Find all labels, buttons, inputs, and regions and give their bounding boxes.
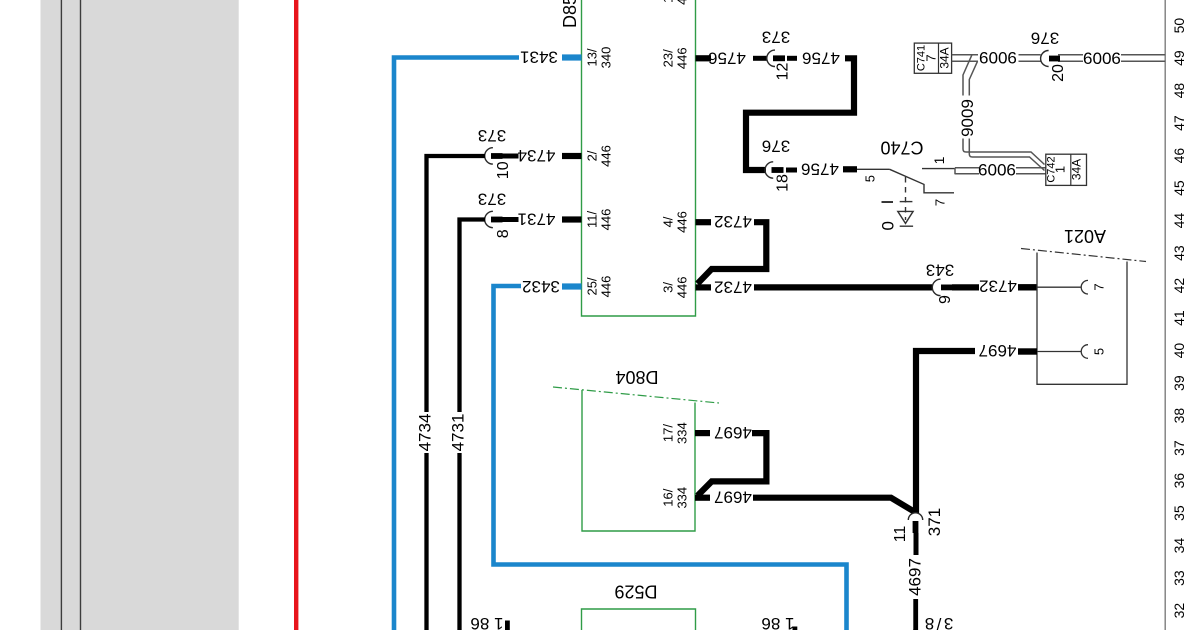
pin stub left bottom (505, 621, 510, 630)
svg-text:35: 35 (1171, 505, 1187, 521)
A021 pin 5 number (1092, 348, 1107, 355)
svg-text:46: 46 (1171, 148, 1187, 164)
twisted pair 6006 upper (line A) (952, 54, 1165, 56)
wire 4697 run from A021 (916, 351, 975, 513)
switch pin 1 number (931, 156, 947, 164)
svg-text:373: 373 (478, 190, 506, 209)
svg-text:36: 36 (1171, 473, 1187, 489)
svg-text:9009: 9009 (979, 48, 1017, 67)
connector pin number 18 (775, 174, 792, 192)
svg-text:4731: 4731 (518, 210, 556, 229)
wire 3432 (blue) (494, 286, 847, 630)
svg-text:34A: 34A (1070, 159, 1084, 180)
wire 4731 run (460, 220, 486, 413)
pin 23/446 label (661, 47, 690, 69)
switch blade (890, 169, 954, 193)
svg-text:376: 376 (1031, 29, 1059, 48)
connector 343 stub (pin 9 side) (941, 285, 953, 291)
svg-text:7: 7 (933, 199, 948, 206)
pin 16/334 label (661, 487, 690, 509)
svg-text:4697: 4697 (906, 558, 925, 596)
svg-text:343: 343 (926, 261, 954, 280)
connector pin number 12 (775, 63, 792, 81)
band rule 1 (60, 0, 62, 630)
connector 373 arc (pin 12) (767, 50, 775, 66)
component A021 box (1037, 253, 1127, 385)
svg-text:0: 0 (879, 221, 898, 230)
wire 4732 main run (754, 284, 932, 290)
svg-text:4697: 4697 (714, 488, 752, 507)
wire segment to connector 373 (753, 56, 767, 61)
A021 pin 5 stub (1018, 348, 1037, 354)
wire 4734 lower run (424, 453, 428, 630)
svg-text:1 86: 1 86 (470, 614, 503, 630)
pin stub 23/446 (696, 55, 712, 61)
pin 11/446 label (585, 209, 614, 231)
A021 pin 5 terminal arc (1081, 345, 1088, 359)
pin stub right bottom (793, 627, 798, 630)
svg-text:9009: 9009 (978, 160, 1016, 179)
wire segment after connector 343 (952, 284, 979, 290)
switch pin 5 number (863, 175, 878, 182)
svg-text:11/446: 11/446 (585, 209, 614, 231)
connector pin number 11 (892, 526, 909, 543)
svg-text:45: 45 (1171, 180, 1187, 196)
svg-text:11: 11 (892, 526, 909, 543)
component D804 box (green) (582, 390, 695, 531)
svg-text:1: 1 (931, 156, 947, 164)
svg-text:D529: D529 (614, 582, 657, 602)
switch position I tick (900, 201, 913, 203)
svg-text:D804: D804 (615, 367, 658, 387)
svg-text:39: 39 (1171, 375, 1187, 391)
pin stub 4/446 (696, 219, 712, 225)
switch pin 5 contact line (857, 168, 890, 170)
A021 pin 7 number (1092, 283, 1107, 290)
wire 4697 lower run (914, 533, 919, 555)
wire segment to label (4731) (502, 217, 519, 222)
svg-text:23/446: 23/446 (661, 47, 690, 69)
wire 4697 bridge run (pin17 to pin16) (698, 433, 767, 496)
connector 373 stub (pin 12 side) (773, 55, 785, 61)
svg-text:50: 50 (1171, 18, 1187, 34)
svg-text:1: 1 (1053, 166, 1068, 173)
connector 371 stub (pin 11 side) (913, 521, 919, 533)
connector C741 box (914, 43, 951, 73)
component A021 boundary dash-dot (1021, 249, 1146, 262)
component D804 boundary dash-dot (green) (553, 387, 719, 403)
connector C742 box (1046, 154, 1087, 185)
svg-text:17/334: 17/334 (661, 422, 690, 444)
svg-text:373: 373 (478, 126, 506, 145)
svg-text:41: 41 (1171, 310, 1187, 326)
connector C742 name (1046, 156, 1058, 182)
svg-text:34A: 34A (938, 47, 952, 68)
pin stub 11/446 (562, 216, 582, 222)
connector 376 stub (pin 20 side) (1049, 56, 1060, 62)
svg-text:4732: 4732 (714, 277, 752, 296)
wire 4731 vertical label (449, 414, 468, 452)
svg-text:4756: 4756 (708, 48, 746, 67)
wire segment after connector 373 (787, 56, 797, 61)
pin 17/334 label (661, 422, 690, 444)
svg-text:37: 37 (1171, 440, 1187, 456)
svg-text:34: 34 (1171, 538, 1187, 554)
wire segment to label (4734) (502, 154, 519, 159)
svg-text:4697: 4697 (979, 341, 1017, 360)
connector 373 stub (pin 10 side) (491, 153, 503, 159)
switch pin1 twisted pair bracket (954, 168, 956, 175)
svg-text:373: 373 (762, 28, 790, 47)
wire 4697 vertical label (906, 558, 925, 596)
svg-text:3/8: 3/8 (922, 614, 953, 630)
svg-text:4697: 4697 (714, 423, 752, 442)
pin stub 2/446 (562, 153, 582, 159)
connector pin number 10 (495, 161, 512, 179)
connector 376 stub (pin 18 side) (772, 167, 784, 173)
wire segment after connector 376 (786, 168, 797, 173)
switch position arrow (triangle) (898, 211, 913, 223)
wire 4697 exit arrow flare (910, 627, 918, 630)
svg-text:9: 9 (937, 295, 954, 304)
switch position dashed axis (905, 177, 907, 220)
svg-text:44: 44 (1171, 213, 1187, 229)
connector 343 arc (pin 9) (932, 279, 940, 295)
switch pin 7 number (933, 199, 948, 206)
A021 pin 7 terminal arc (1081, 280, 1088, 294)
wire 4731 lower run (457, 453, 461, 630)
svg-text:12: 12 (775, 63, 792, 81)
pin stub 3/446 (696, 284, 712, 290)
svg-text:C740: C740 (880, 138, 923, 158)
control unit D855 (green outline, top) (582, 0, 696, 316)
connector pin number 9 (937, 295, 954, 304)
connector 371 arc (pin 11) (908, 513, 922, 520)
connector 373 stub (pin 8 side) (491, 217, 503, 223)
svg-text:D855: D855 (560, 0, 580, 28)
switch position I label (878, 200, 897, 205)
wire 4756 heavy S-run (746, 58, 854, 170)
A021 pin 5 lead (1037, 351, 1081, 353)
connector C742 pin 1 (1053, 166, 1068, 173)
svg-text:49: 49 (1171, 50, 1187, 66)
twisted pair 6006 upper (line B) (952, 60, 1165, 62)
wire 9009 label (958, 99, 977, 137)
svg-text:38: 38 (1171, 408, 1187, 424)
pin 25/446 label (585, 276, 614, 298)
connector pin number 20 (1050, 64, 1067, 82)
svg-text:32: 32 (1171, 603, 1187, 619)
svg-text:25/446: 25/446 (585, 276, 614, 298)
component D529 box (green) (582, 609, 696, 630)
twisted pair 9009 (line B) (969, 61, 1044, 170)
svg-text:33: 33 (1171, 570, 1187, 586)
connector C741 divider (938, 43, 940, 73)
svg-text:8: 8 (495, 229, 512, 238)
svg-text:48: 48 (1171, 83, 1187, 99)
connector 376 arc (pin 18) (765, 162, 773, 178)
svg-text:40: 40 (1171, 343, 1187, 359)
pin stub 17/334 (695, 430, 710, 436)
svg-text:7: 7 (1092, 283, 1107, 290)
svg-text:3432: 3432 (522, 277, 560, 296)
connector C741 pin 7 (924, 54, 939, 61)
wire 4732 bridge run (pin4 to pin3) (698, 222, 767, 284)
svg-text:4734: 4734 (518, 146, 556, 165)
connector C741 name (916, 45, 928, 71)
svg-text:43: 43 (1171, 245, 1187, 261)
pin 2/446 label (585, 145, 614, 167)
svg-text:I: I (878, 200, 897, 205)
ruler line (1164, 0, 1166, 630)
svg-text:4731: 4731 (449, 414, 468, 452)
wire 4697 main run to junction (753, 498, 914, 512)
twisted pair 6006 lower (line A) (955, 167, 1046, 169)
wire 4756 end stub at switch (843, 166, 857, 172)
svg-text:7: 7 (924, 54, 939, 61)
pin stub 25/446 (blue) (562, 283, 582, 289)
switch pin 1 contact line (922, 168, 955, 170)
svg-text:16/334: 16/334 (661, 487, 690, 509)
wire 4734 run (427, 156, 486, 412)
svg-text:9009: 9009 (958, 99, 977, 137)
svg-text:5: 5 (863, 175, 878, 182)
connector pin number 8 (495, 229, 512, 238)
svg-text:5: 5 (1092, 348, 1107, 355)
connector C742 code 34A (1070, 159, 1084, 180)
pin stub 13/340 (blue) (562, 54, 582, 60)
wire 4697 exit run (913, 599, 918, 630)
svg-text:376: 376 (762, 137, 790, 156)
svg-text:18: 18 (775, 174, 792, 192)
connector C742 divider (1070, 154, 1072, 185)
connector 376 arc (pin 20) (1041, 51, 1049, 67)
A021 pin 7 stub (1018, 284, 1037, 290)
label D855 (560, 0, 580, 28)
pin 3/446 label (661, 277, 690, 299)
pin stub 16/334 (695, 495, 710, 501)
svg-text:1 86: 1 86 (761, 614, 794, 630)
switch position 0 bar (900, 225, 913, 227)
pin 12/446 label (cut off at top) (661, 0, 690, 5)
svg-text:13/340: 13/340 (585, 47, 614, 69)
pin 13/340 label (585, 47, 614, 69)
svg-text:47: 47 (1171, 115, 1187, 131)
svg-text:4732: 4732 (979, 277, 1017, 296)
svg-text:20: 20 (1050, 64, 1067, 82)
A021 pin 7 lead (1037, 286, 1081, 288)
svg-text:4734: 4734 (416, 414, 435, 452)
twisted pair 9009 (line A) (963, 55, 1045, 165)
ruler grid numbers 32-50 (1171, 18, 1187, 619)
svg-text:10: 10 (495, 161, 512, 179)
connector 371 name (925, 508, 944, 536)
svg-text:4732: 4732 (714, 212, 752, 231)
svg-text:A021: A021 (1064, 226, 1106, 246)
svg-text:4756: 4756 (801, 159, 839, 178)
wire 4734 vertical label (416, 414, 435, 452)
left gray margin band (41, 0, 239, 630)
connector 373 arc (pin 8) (485, 211, 493, 227)
svg-text:3431: 3431 (520, 48, 558, 67)
svg-text:9009: 9009 (1083, 49, 1121, 68)
wire 3431 (blue) (394, 58, 519, 630)
svg-text:4756: 4756 (802, 48, 840, 67)
svg-text:42: 42 (1171, 278, 1187, 294)
twisted pair 6006 lower (line B) (955, 173, 1046, 175)
svg-text:371: 371 (925, 508, 944, 536)
switch position 0 label (879, 221, 898, 230)
band rule 2 (80, 0, 82, 630)
red divider line (294, 0, 298, 630)
connector 373 arc (pin 10) (485, 148, 493, 164)
pin 4/446 label (661, 211, 690, 233)
connector C741 code 34A (938, 47, 952, 68)
